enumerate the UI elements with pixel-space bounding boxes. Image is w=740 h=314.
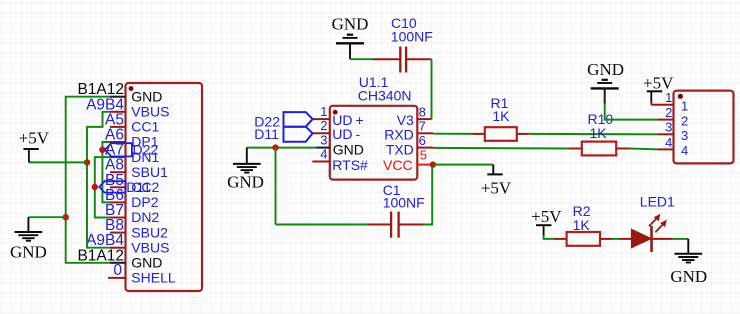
ground symbol left of U1	[246, 148, 248, 164]
P2 origin dot	[678, 94, 683, 99]
pin A9B4 (VBUS) stub	[110, 111, 126, 113]
svg-text:4: 4	[665, 135, 672, 150]
pin A9B4 (VBUS) stub	[110, 247, 126, 249]
net flag D11 at connector	[99, 181, 125, 192]
LED1 arrow 2	[655, 220, 667, 233]
svg-text:GND: GND	[587, 60, 624, 79]
svg-text:GND: GND	[131, 88, 162, 104]
junction GND/C1	[272, 144, 278, 150]
+5V symbol at R2	[536, 224, 551, 226]
svg-text:TXD: TXD	[386, 142, 414, 158]
wire down to C1	[275, 148, 277, 225]
wire GND to pin2 of P2	[605, 103, 658, 120]
svg-text:1: 1	[665, 90, 672, 105]
svg-text:+5V: +5V	[19, 129, 50, 148]
wire +5V to R2	[544, 236, 555, 239]
wire pin6 to R10	[433, 147, 568, 150]
svg-text:3: 3	[681, 128, 688, 143]
svg-text:7: 7	[419, 119, 426, 134]
+5V symbol at P2	[647, 90, 662, 92]
svg-text:GND: GND	[131, 255, 162, 271]
svg-text:SBU1: SBU1	[131, 164, 168, 180]
pin B7 (DN2) stub	[110, 217, 126, 219]
stub GND top-right	[604, 89, 606, 105]
wire DN net (DN1-DN2)	[95, 157, 110, 217]
svg-text:100NF: 100NF	[383, 195, 425, 211]
P2 pin 4 stub	[658, 148, 674, 150]
svg-text:D11: D11	[254, 126, 279, 142]
svg-text:VCC: VCC	[383, 157, 413, 173]
svg-text:LED1: LED1	[640, 194, 675, 210]
wire +5V feed	[29, 161, 87, 163]
ground symbol far-left	[27, 217, 29, 231]
junction GND branch	[62, 214, 68, 220]
pin 7 stub (RXD)	[417, 132, 433, 134]
pin B5 (CC2) stub	[110, 186, 126, 188]
capacitor C1	[367, 224, 391, 226]
LED LED1	[620, 238, 632, 240]
P2 pin 2 stub	[658, 119, 674, 121]
svg-text:1: 1	[320, 104, 327, 119]
pin 8 stub (V3)	[417, 118, 431, 120]
wire C1 to VCC	[423, 165, 432, 225]
pin 5 stub (VCC)	[417, 164, 431, 166]
wire pin7 to R1	[433, 133, 472, 135]
svg-text:DP2: DP2	[131, 194, 158, 210]
svg-text:GND: GND	[227, 173, 264, 192]
USB connector P1 origin dot	[129, 86, 134, 91]
resistor R10	[568, 148, 581, 150]
U1 origin dot	[333, 110, 338, 115]
pin B6 (DP2) stub	[110, 201, 126, 203]
ground symbol bottom-right	[687, 239, 689, 253]
svg-text:GND: GND	[332, 15, 369, 34]
wire GND to pin3	[247, 147, 316, 149]
wire +5V to pin1 of P2	[650, 102, 652, 105]
svg-text:1K: 1K	[492, 108, 510, 124]
LED1 arrow 1	[649, 214, 661, 227]
pin 6 stub (TXD)	[417, 147, 433, 149]
svg-text:CC1: CC1	[131, 119, 159, 135]
wire R1 to pin3 of P2	[529, 133, 657, 135]
svg-text:D11: D11	[126, 179, 151, 195]
P2 pin 3 stub	[658, 133, 674, 135]
svg-text:3: 3	[665, 120, 672, 135]
svg-text:0: 0	[113, 262, 122, 279]
svg-text:6: 6	[419, 133, 426, 148]
svg-text:GND: GND	[10, 242, 47, 261]
wire VCC to +5V	[433, 164, 493, 166]
pin B1A12 (GND) stub	[110, 96, 126, 98]
svg-text:2: 2	[320, 118, 327, 133]
junction VCC node	[430, 161, 436, 167]
svg-text:2: 2	[665, 105, 672, 120]
svg-text:SHELL: SHELL	[131, 270, 176, 286]
op-amp U1 box (CH340N)	[330, 106, 418, 180]
svg-text:UD-: UD-	[332, 126, 360, 142]
svg-text:DN2: DN2	[131, 209, 159, 225]
wire DP net (DP1-DP2)	[102, 142, 110, 202]
pin 2 stub (UD-)	[312, 132, 329, 134]
pin A5 (CC1) stub	[110, 126, 126, 128]
svg-text:RXD: RXD	[384, 127, 414, 143]
svg-text:+5V: +5V	[481, 179, 512, 198]
svg-text:VBUS: VBUS	[131, 104, 169, 120]
svg-text:4: 4	[320, 146, 327, 161]
svg-text:RTS#: RTS#	[332, 157, 368, 173]
pin 0 (SHELL) stub	[108, 277, 126, 279]
wire to GND symbol	[28, 216, 65, 218]
junction D11 flag	[92, 184, 98, 190]
ground symbol top-middle (inverted)	[349, 43, 351, 59]
pin A7 (DN1) stub	[110, 156, 126, 158]
wire LED1 to GND	[673, 238, 689, 240]
pin A8 (SBU1) stub	[110, 171, 126, 173]
pin B1A12 (GND) stub	[110, 262, 126, 264]
svg-text:D22: D22	[133, 141, 159, 157]
P2 pin 1 stub	[651, 104, 673, 106]
wire C10 to pin8	[431, 59, 433, 119]
pin 4 stub (RTS#)	[312, 161, 329, 163]
wire GND net (B1A12 top to bottom)	[66, 97, 110, 263]
USB connector P1 box	[126, 83, 203, 291]
pin A6 (DP1) stub	[110, 141, 126, 143]
svg-text:SBU2: SBU2	[131, 224, 168, 240]
svg-text:3: 3	[320, 132, 327, 147]
svg-text:1K: 1K	[590, 125, 608, 141]
wire R2 to LED1	[612, 238, 620, 240]
wire GND to C10	[350, 58, 373, 60]
svg-text:100NF: 100NF	[391, 29, 433, 45]
svg-text:1: 1	[681, 99, 688, 114]
net flag D11 at U1	[284, 127, 313, 142]
pin 3 stub (GND)	[316, 147, 330, 149]
connector P2 box	[674, 91, 734, 164]
svg-text:GND: GND	[670, 267, 707, 286]
svg-text:GND: GND	[333, 141, 364, 157]
svg-text:4: 4	[681, 143, 688, 158]
junction D22 flag	[99, 147, 105, 153]
svg-text:VBUS: VBUS	[131, 239, 169, 255]
junction +5V/VBUS	[84, 159, 90, 165]
svg-text:CH340N: CH340N	[358, 87, 412, 103]
svg-text:8: 8	[419, 104, 426, 119]
+5V symbol below R1	[492, 165, 494, 175]
wire VBUS net	[87, 112, 110, 248]
resistor R2	[555, 238, 567, 240]
svg-text:1K: 1K	[573, 217, 591, 233]
+5V symbol far-left	[23, 148, 38, 150]
pin 1 stub (UD+)	[312, 118, 329, 120]
wire R10 to pin4 of P2	[629, 148, 658, 151]
wire C1 left	[276, 224, 367, 226]
ground symbol top-right (inverted)	[604, 87, 606, 89]
net flag D22 at U1	[284, 112, 313, 127]
svg-text:+5V: +5V	[531, 207, 562, 226]
pin B8 (SBU2) stub	[110, 232, 126, 234]
svg-text:5: 5	[420, 147, 427, 162]
net flag D22 at connector	[105, 143, 132, 156]
resistor R1	[472, 133, 485, 135]
capacitor C10	[373, 58, 400, 60]
svg-text:2: 2	[681, 113, 688, 128]
